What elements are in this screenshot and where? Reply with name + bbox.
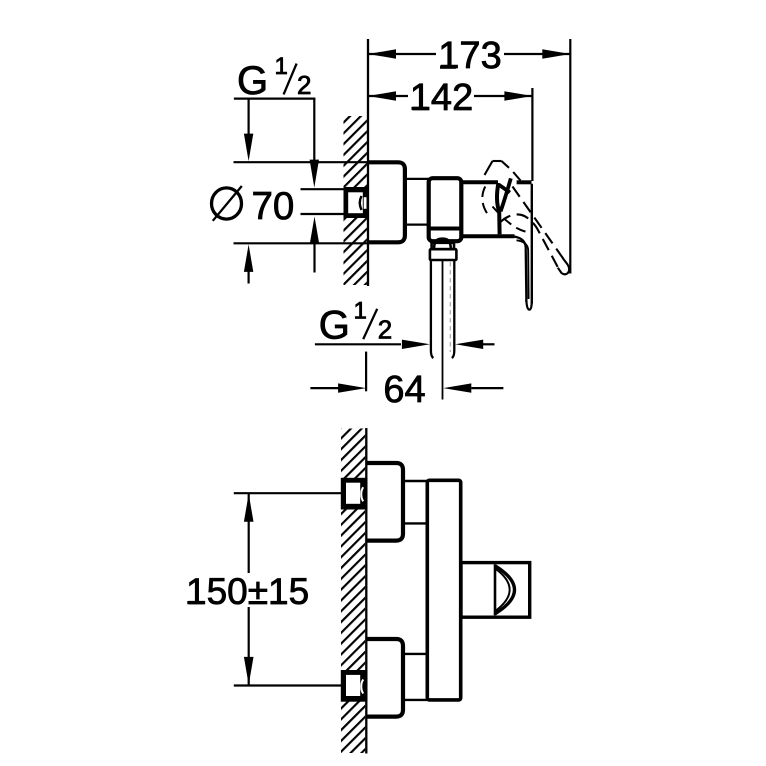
dimension 142 right extension line (531, 88, 533, 181)
svg-text:142: 142 (410, 77, 473, 119)
upper wall union (bottom view) (341, 478, 368, 510)
svg-text:G: G (237, 59, 268, 103)
dashed lever tip (rotated position, diamond) (485, 161, 493, 175)
dimension 64 line + arrowheads (310, 387, 339, 389)
handle crescent arcs (495, 566, 515, 614)
neck lines (top view) (406, 178, 429, 180)
valve body (bottom view) (427, 480, 460, 700)
dimension 173 right extension line (569, 39, 571, 274)
lower escutcheon (bottom view) (366, 639, 403, 717)
dimension 173 right arrowhead (542, 49, 570, 58)
escutcheon (top view) (368, 162, 405, 242)
body bottom line (top view) (461, 234, 515, 238)
dimension 173 line (368, 53, 436, 55)
body top line (top view), broken by lever (461, 180, 498, 184)
upper neck lines (bottom view) (405, 480, 427, 482)
label diameter 70 (212, 188, 242, 219)
dimension 64 left extension line (365, 352, 367, 392)
svg-text:G: G (319, 303, 350, 347)
G 1/2 leader underline (top) (234, 97, 316, 99)
svg-text:150±15: 150±15 (186, 571, 309, 612)
diameter 70 lower arrow (244, 244, 253, 272)
handle knob (bottom view) (461, 563, 530, 618)
lower wall union (bottom view) (341, 670, 368, 702)
lower neck lines (bottom view) (405, 653, 427, 655)
svg-text:1: 1 (354, 298, 367, 325)
lever back edge (solid) (497, 183, 500, 234)
handle chord line (494, 564, 497, 615)
lever blade pointing down (solid) (513, 236, 526, 302)
G 1/2 leader vertical + arrowhead (top) (313, 99, 315, 161)
wall union (top view) (344, 187, 370, 218)
dimension 142 line (368, 95, 408, 97)
upper supply line / extension (234, 492, 341, 494)
G 1/2 leader line + arrowhead (lower) (315, 343, 401, 345)
dashed dome arc (482, 187, 487, 214)
diameter 70 bottom extension line (234, 242, 369, 244)
svg-text:70: 70 (252, 185, 295, 228)
up arrow below pipe (G 1/2 thread) (310, 217, 319, 244)
dashed mid curve 1 (493, 207, 530, 233)
hose nut (430, 249, 457, 260)
opposing arrow at hose right (455, 340, 483, 349)
svg-text:173: 173 (438, 35, 501, 77)
dashed lever (rotated open position) (513, 187, 564, 260)
outlet dome arc (434, 239, 451, 248)
lever front edge (solid) (501, 178, 511, 211)
lower supply line / extension (234, 684, 341, 686)
diameter 70 top extension line (234, 161, 368, 163)
dimension 150±15 line + arrowheads (248, 494, 250, 573)
housing internal line (429, 227, 461, 231)
svg-text:1: 1 (275, 53, 288, 80)
dimension 142 right arrowhead (504, 91, 532, 100)
hose centerline (442, 260, 444, 400)
wall hatching (bottom view) (341, 429, 365, 754)
hose inner dashed line (449, 262, 451, 352)
upper escutcheon (bottom view) (366, 463, 403, 541)
svg-text:64: 64 (383, 369, 425, 411)
svg-text:2: 2 (297, 70, 311, 100)
dome arc inside V (499, 185, 510, 193)
supply pipe stub (top view) (301, 188, 344, 190)
wall hatching (top view) (344, 116, 367, 285)
wall line + left extension line (top view) (367, 39, 369, 286)
hose outer lines (431, 260, 434, 358)
dimension 173 left arrowhead (368, 49, 396, 58)
diameter 70 upper arrow (248, 99, 250, 134)
dashed rotated lever lower edge (500, 214, 559, 268)
wall line (bottom view) (365, 428, 367, 754)
svg-text:2: 2 (378, 314, 392, 344)
outlet collar ring (432, 243, 454, 249)
cartridge housing (top view) (429, 178, 462, 241)
dimension 142 left arrowhead (368, 91, 396, 100)
